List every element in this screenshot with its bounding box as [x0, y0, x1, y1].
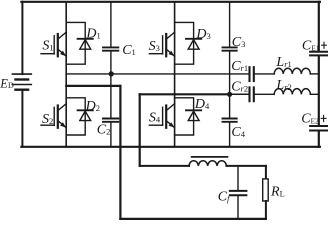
- capacitor C2: [103, 74, 118, 147]
- node A wire (bridge left midpoint to Cr1): [66, 73, 249, 75]
- capacitor CE1 electrolytic: [310, 52, 327, 56]
- wire node B vertical down to output inductor: [139, 94, 141, 166]
- wire output top (node B to load): [140, 165, 266, 167]
- wire right leg vertical (S3/S4 branch): [174, 2, 176, 147]
- diode D2 with connection loop: [66, 98, 93, 135]
- wire right rail top segment: [318, 2, 320, 51]
- wire left rail ED positive lead: [21, 2, 23, 74]
- label CE1 plus sign: [322, 42, 327, 48]
- diode D1 with connection loop: [66, 22, 93, 64]
- wire node A tap vertical down to load return: [119, 86, 121, 219]
- inductor Lf output filter: [189, 161, 226, 166]
- battery ED: [12, 74, 31, 90]
- resistor RL: [263, 166, 269, 219]
- transistor S4: [149, 104, 174, 128]
- inductor Lf core bar: [192, 156, 228, 158]
- wire top bus: [21, 1, 320, 3]
- capacitor Cr1: [250, 67, 275, 81]
- wire left rail ED negative lead: [21, 90, 23, 147]
- transistor S2: [41, 104, 66, 128]
- junction dot node A: [109, 71, 114, 76]
- wire right rail middle segment: [318, 56, 320, 125]
- capacitor C4: [223, 94, 237, 147]
- label CE2 plus sign: [321, 115, 326, 121]
- inductor Lr1: [274, 68, 319, 74]
- capacitor C1: [103, 2, 118, 74]
- wire node A tap to output loop (horizontal): [66, 85, 120, 87]
- inductor Lr2: [274, 89, 319, 95]
- wire output bottom return: [120, 218, 266, 220]
- transistor S3: [149, 32, 174, 56]
- wire right rail bottom segment: [318, 131, 320, 147]
- wire bottom bus: [21, 146, 320, 148]
- capacitor CE2 electrolytic: [310, 126, 327, 131]
- diode D4 with connection loop: [175, 98, 202, 135]
- capacitor C3: [223, 2, 237, 95]
- transistor S1: [41, 32, 66, 56]
- capacitor Cf: [230, 166, 247, 219]
- junction dot node B: [227, 92, 232, 97]
- wire left leg vertical (S1/S2 branch): [65, 2, 67, 147]
- capacitor Cr2: [250, 87, 275, 101]
- diode D3 with connection loop: [175, 22, 202, 64]
- node B wire (bridge right midpoint to Cr2): [140, 93, 249, 95]
